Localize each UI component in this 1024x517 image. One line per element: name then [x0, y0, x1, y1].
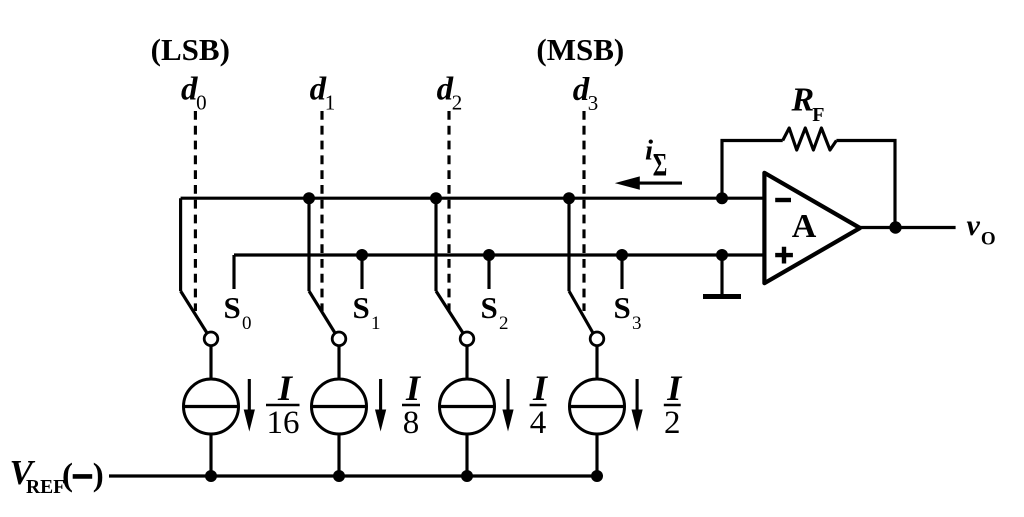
switch S3 throw stub: [620, 255, 623, 289]
svg-text:): ): [93, 458, 104, 494]
input d3 dashed line: [582, 111, 585, 311]
current source I/16 circle: [184, 379, 239, 434]
node: junction dot I/2 on bottom bus: [591, 470, 603, 482]
node: junction dot ground tap on + bus: [716, 249, 728, 261]
svg-text:S: S: [224, 290, 241, 325]
svg-text:I: I: [277, 368, 294, 408]
switch S2 arm: [436, 291, 463, 333]
node: junction dot S1 tap on summing bus: [303, 192, 315, 204]
svg-text:1: 1: [371, 313, 381, 334]
svg-text:4: 4: [530, 405, 547, 441]
wire: op-amp output to vO: [860, 226, 956, 229]
svg-text:16: 16: [267, 405, 300, 441]
svg-text:0: 0: [196, 91, 207, 115]
wire: S0 pole to current source I/16: [209, 346, 212, 379]
svg-text:I: I: [532, 368, 549, 408]
label I/2: [664, 404, 681, 407]
input d1 dashed line: [320, 111, 323, 311]
op-amp minus sign: [775, 198, 791, 202]
svg-text:S: S: [481, 290, 498, 325]
wire: bus drop to switch S0: [179, 198, 182, 291]
svg-text:A: A: [792, 208, 817, 245]
iSigma arrowhead: [615, 176, 640, 189]
svg-text:3: 3: [588, 91, 599, 115]
switch S0 throw stub: [232, 255, 235, 289]
node: junction dot S3 tap on summing bus: [563, 192, 575, 204]
node: junction dot S3 stub on + bus: [616, 249, 628, 261]
wire: ground drop from + bus: [720, 255, 723, 296]
svg-text:(MSB): (MSB): [536, 32, 624, 67]
wire: S3 pole to current source I/2: [595, 346, 598, 379]
svg-text:1: 1: [325, 91, 336, 115]
label I/16: [266, 404, 300, 407]
op-amp plus sign: [775, 247, 793, 264]
svg-text:R: R: [791, 82, 815, 119]
current arrow I/16: [248, 379, 251, 411]
node: junction dot I/8 on bottom bus: [333, 470, 345, 482]
svg-text:REF: REF: [26, 477, 65, 498]
node: junction dot S1 stub on + bus: [356, 249, 368, 261]
svg-text:O: O: [981, 229, 996, 250]
switch S2 throw stub: [487, 255, 490, 289]
wire: S2 pole to current source I/4: [465, 346, 468, 379]
switch S1 pole circle: [332, 332, 346, 346]
node: junction dot feedback tap on summing bus: [716, 192, 728, 204]
switch S0 pole circle: [204, 332, 218, 346]
svg-text:2: 2: [499, 313, 509, 334]
wire: VREF(-) bottom bus: [109, 474, 597, 477]
switch S2 pole circle: [460, 332, 474, 346]
svg-text:0: 0: [242, 313, 252, 334]
label I/4: [530, 404, 547, 407]
current arrow I/4: [506, 379, 509, 411]
op-amp A triangle: [764, 173, 860, 283]
resistor RF zigzag: [783, 128, 837, 150]
iSigma arrow shaft: [639, 182, 682, 185]
label I/8: [402, 404, 420, 407]
current source I/8 circle: [312, 379, 367, 434]
wire: RF to output node: [836, 141, 895, 228]
svg-text:F: F: [812, 104, 824, 126]
wire: feedback from inverting node up and over RF: [722, 141, 783, 199]
switch S1 throw stub: [360, 255, 363, 289]
current arrow I/2: [636, 379, 639, 411]
wire: current source I/4 to bottom bus: [465, 434, 468, 476]
wire: bus drop to switch S3: [567, 198, 570, 291]
svg-text:I: I: [405, 368, 422, 408]
svg-text:S: S: [353, 290, 370, 325]
node: junction dot S2 tap on summing bus: [430, 192, 442, 204]
wire: bus drop to switch S1: [307, 198, 310, 291]
node: output dot: [889, 221, 901, 233]
switch S3 pole circle: [590, 332, 604, 346]
svg-text:2: 2: [664, 405, 681, 441]
ground symbol bar: [703, 294, 741, 299]
svg-text:8: 8: [403, 405, 420, 441]
input d2 dashed line: [447, 111, 450, 311]
switch S3 arm: [569, 291, 593, 333]
svg-text:(: (: [62, 458, 73, 494]
svg-text:(LSB): (LSB): [151, 32, 230, 67]
switch S0 arm: [181, 291, 207, 333]
svg-text:S: S: [614, 290, 631, 325]
node: junction dot I/16 on bottom bus: [205, 470, 217, 482]
node: junction dot I/4 on bottom bus: [461, 470, 473, 482]
svg-text:2: 2: [452, 91, 463, 115]
current source I/2 circle: [570, 379, 625, 434]
input d0 dashed line: [194, 111, 197, 311]
wire: current source I/8 to bottom bus: [337, 434, 340, 476]
svg-text:I: I: [666, 368, 683, 408]
svg-text:Σ: Σ: [653, 147, 668, 183]
current source I/4 circle: [440, 379, 495, 434]
wire: non-inverting bus (second line) to op-amp + input: [234, 253, 765, 256]
switch S1 arm: [309, 291, 335, 333]
wire: current source I/16 to bottom bus: [209, 434, 212, 476]
svg-text:v: v: [967, 209, 981, 242]
node: junction dot S2 stub on + bus: [483, 249, 495, 261]
current arrow I/8: [379, 379, 382, 411]
svg-text:3: 3: [632, 313, 642, 334]
wire: summing bus (top) to op-amp inverting input: [181, 197, 765, 200]
wire: S1 pole to current source I/8: [337, 346, 340, 379]
wire: bus drop to switch S2: [434, 198, 437, 291]
wire: current source I/2 to bottom bus: [595, 434, 598, 476]
